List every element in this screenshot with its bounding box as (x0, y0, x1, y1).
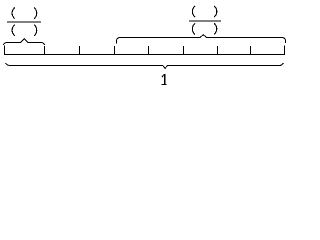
fraction blank F1 bar (7, 22, 41, 23)
tick t7 (250, 46, 252, 55)
tick t8 (right end) (284, 46, 286, 55)
label 1 (whole) (162, 74, 167, 85)
number line (4, 54, 285, 56)
tick t3 (114, 46, 116, 55)
fraction blank F2 numerator parens (192, 6, 217, 17)
tick t2 (79, 46, 81, 55)
tick t1 (44, 46, 46, 55)
tick t5 (183, 46, 185, 55)
fraction blank F2 bar (189, 21, 221, 22)
tick t6 (217, 46, 219, 55)
fraction blank F1 numerator parens (12, 7, 37, 18)
overbrace B2 over last five segments (117, 35, 286, 44)
overbrace B1 over first segment (3, 39, 44, 45)
fraction blank F2 denominator parens (192, 23, 217, 34)
tick t0 (left end) (4, 46, 6, 55)
tick t4 (148, 46, 150, 55)
fraction blank F1 denominator parens (12, 25, 37, 36)
underbrace B3 under whole line (6, 63, 284, 68)
